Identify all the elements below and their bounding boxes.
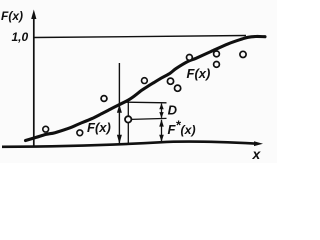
data point circle 2: [77, 130, 83, 136]
vertical line at chosen x with F(x) ordinate arrows: [117, 63, 122, 144]
F*(x) double arrow: [159, 120, 164, 142]
data point circle 10: [240, 51, 246, 57]
D double arrow: [159, 103, 163, 118]
horizontal line from empirical point level: [132, 118, 167, 119]
svg-text:D: D: [168, 103, 178, 118]
svg-text:F(x): F(x): [187, 66, 211, 81]
data point circle 1: [43, 126, 49, 132]
svg-text:F(x): F(x): [1, 9, 23, 23]
vertical line through empirical point: [127, 101, 129, 144]
curve F(x) theoretical CDF: [26, 36, 266, 140]
svg-text:1,0: 1,0: [12, 30, 29, 44]
data point circle 7: [187, 55, 193, 61]
data point circle on vertical line (empirical point): [125, 116, 131, 122]
y-axis: [31, 10, 36, 147]
data point circle 9: [214, 62, 220, 68]
data point circle 4: [142, 78, 148, 84]
x-axis: [2, 141, 263, 147]
horizontal line from curve level: [127, 101, 167, 104]
svg-text:F(x): F(x): [87, 120, 111, 135]
level line y=1.0: [34, 36, 246, 38]
data point circle 6: [175, 85, 181, 91]
data point circle 5: [167, 78, 173, 84]
svg-text:x: x: [252, 146, 262, 162]
data point circle 3: [101, 96, 107, 102]
data point circle 8: [214, 51, 220, 57]
